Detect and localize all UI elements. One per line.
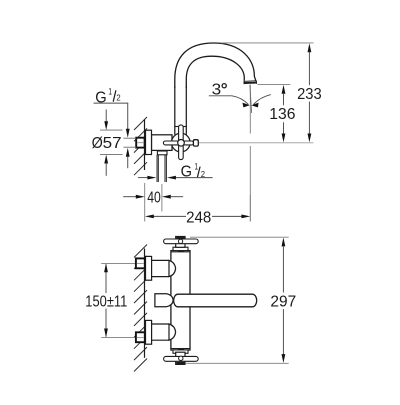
- dimension 297: [190, 236, 289, 238]
- dimension 248: [249, 195, 251, 221]
- wall line (plan): [144, 249, 146, 358]
- svg-text:136: 136: [269, 106, 295, 123]
- upper union nut (plan): [136, 258, 145, 268]
- spout outer curve: [175, 43, 256, 88]
- handle cross circle (side view): [172, 133, 191, 152]
- lower hub circle: [179, 356, 183, 360]
- upper union stub: [152, 260, 169, 276]
- dimension 233: [221, 42, 314, 44]
- svg-text:1: 1: [108, 86, 112, 96]
- upper nut thread line: [137, 262, 144, 264]
- G1/2 wall union nut (top view): [136, 138, 144, 148]
- body bottom inner line: [171, 348, 190, 350]
- upper handle stem: [173, 247, 188, 250]
- riser joint line: [175, 126, 187, 128]
- svg-text:2: 2: [116, 93, 120, 102]
- handle vertical bar: [179, 125, 184, 160]
- upper union bulge: [169, 260, 176, 276]
- lower handle hub: [176, 352, 185, 364]
- svg-text:1: 1: [195, 161, 199, 171]
- svg-text:40: 40: [147, 190, 161, 207]
- handle hub circle: [178, 140, 185, 147]
- svg-text:G: G: [95, 89, 106, 106]
- body top dark mark: [178, 250, 184, 252]
- outlet pipe below valve: [156, 155, 158, 182]
- body column (plan): [171, 251, 190, 350]
- valve body (side view): [152, 135, 173, 151]
- dimension Ø57: [100, 129, 123, 131]
- handle right knob: [193, 140, 198, 146]
- outlet cap below valve: [157, 151, 167, 155]
- svg-text:297: 297: [270, 294, 296, 311]
- upper escutcheon (plan): [146, 256, 152, 280]
- G1/2 lower arrow (points up at nut bottom): [126, 148, 130, 157]
- spout inner curve: [186, 56, 244, 88]
- 3 degree angle: spout centerline vertical: [249, 85, 251, 134]
- extension line 150 top (upper pipe axis): [101, 262, 146, 264]
- svg-text:150±11: 150±11: [85, 294, 127, 311]
- nut edge extension lines: [124, 137, 137, 139]
- G1/2 top leader down: [127, 103, 129, 129]
- lower hub dark band: [176, 362, 184, 365]
- diverter knob (plan): [155, 294, 173, 307]
- spout riser pipe: [174, 86, 176, 135]
- svg-text:248: 248: [186, 210, 211, 227]
- spout outlet face: [244, 80, 256, 83]
- svg-text:Ø: Ø: [92, 135, 103, 152]
- body bottom dark mark: [178, 348, 184, 350]
- upper hub dark band: [176, 237, 184, 240]
- svg-text:233: 233: [297, 86, 322, 103]
- wall hatching (plan): [134, 245, 147, 372]
- dimension 40: [144, 183, 146, 222]
- 3 deg dimension arc left: [232, 96, 249, 105]
- lower union stub: [152, 324, 169, 340]
- spout capsule (plan): [174, 294, 257, 307]
- left pointer at pipe: [138, 177, 149, 179]
- dimension 136: [258, 83, 291, 85]
- lower union bulge: [169, 324, 176, 340]
- wall hatching (top view): [134, 117, 147, 175]
- svg-text:57: 57: [103, 135, 122, 152]
- upper handle bar: [164, 239, 199, 244]
- thread line inside nut: [137, 142, 144, 144]
- 3 degree tilted line: [250, 85, 252, 113]
- G1/2 top underline: [94, 102, 129, 104]
- wall line (top view): [144, 119, 146, 170]
- projection line continues to plan view: [249, 146, 251, 221]
- centerline of valve axis: [137, 142, 314, 144]
- lower handle bar: [164, 356, 199, 361]
- upper handle hub: [176, 237, 185, 248]
- 3 deg dimension arc right: [253, 95, 271, 105]
- lower union nut (plan): [136, 332, 145, 342]
- escutcheon flange (side view): [146, 130, 152, 154]
- 3 deg leader underline: [209, 95, 232, 97]
- dimension 150±11: [105, 264, 107, 293]
- extension line 150 bottom (lower pipe axis): [101, 336, 146, 338]
- lower handle stem: [173, 350, 188, 353]
- G1/2 bottom underline / leader: [175, 177, 213, 179]
- lower nut thread line: [137, 336, 144, 338]
- body top inner line: [171, 251, 190, 253]
- handle horizontal bar: [163, 141, 193, 145]
- upper hub circle: [179, 239, 183, 243]
- lower escutcheon (plan): [146, 320, 152, 344]
